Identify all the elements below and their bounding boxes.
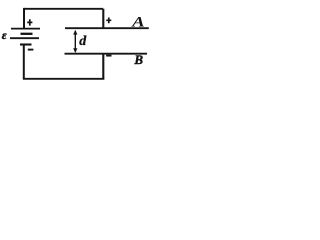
svg-text:B: B bbox=[133, 52, 143, 67]
svg-text:ε: ε bbox=[2, 28, 7, 42]
svg-text:A: A bbox=[131, 14, 144, 31]
svg-text:d: d bbox=[79, 34, 87, 49]
